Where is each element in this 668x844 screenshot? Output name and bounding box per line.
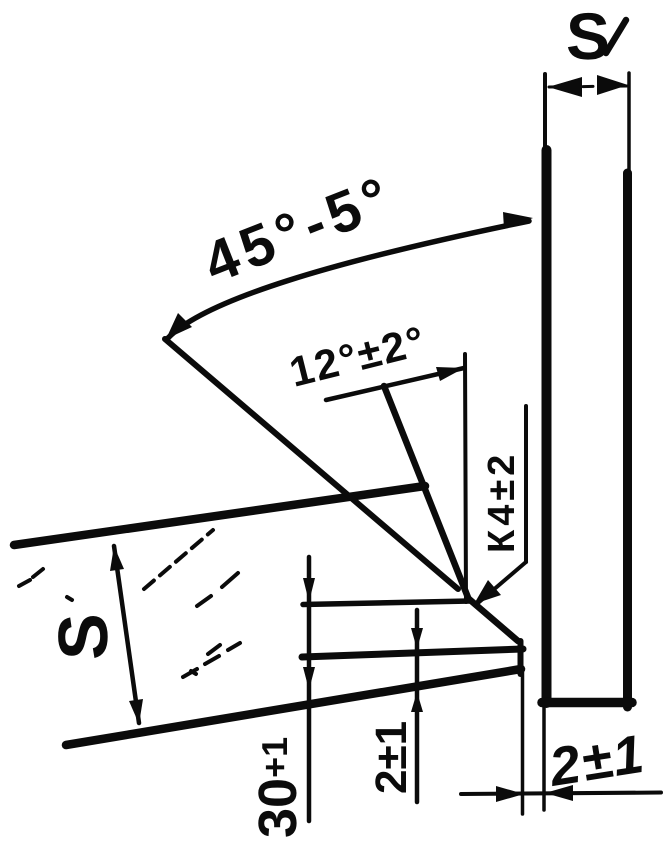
- arc right arrowhead: [503, 212, 533, 229]
- K leader vertical segment: [524, 406, 528, 562]
- 30+1 dimension line: [307, 557, 312, 821]
- root gap left-pointing arrowhead: [545, 785, 573, 801]
- S1 dimension line: [549, 86, 627, 87]
- 45 deg construction line: [165, 339, 458, 589]
- hatch dashed line 2: [144, 530, 213, 589]
- arc left arrowhead: [166, 313, 192, 339]
- svg-text:S: S: [44, 613, 122, 660]
- svg-text:2±1: 2±1: [367, 721, 416, 794]
- speck dot 1: [67, 597, 72, 600]
- S dimension bottom arrowhead: [129, 699, 143, 724]
- root gap right-pointing arrowhead: [496, 786, 524, 802]
- hatch dashed line 4: [197, 573, 238, 606]
- nose chamfer: [469, 599, 518, 641]
- right plate left edge extension below: [542, 707, 546, 810]
- right plate left edge thin top: [543, 74, 547, 154]
- 30+1 top arrowhead: [303, 578, 315, 602]
- label S1 subscript stroke: [606, 20, 626, 53]
- S1 right arrowhead: [597, 75, 628, 95]
- speck dot 2: [191, 671, 196, 674]
- K leader diagonal segment: [478, 562, 526, 603]
- right plate left edge thick: [542, 150, 552, 703]
- svg-text:К4±2: К4±2: [481, 451, 523, 553]
- left plate bottom surface edge: [66, 669, 521, 745]
- nose top line: [303, 601, 470, 605]
- 12 deg dimension line: [326, 368, 464, 400]
- 2+-1 left top arrowhead: [411, 628, 423, 649]
- hatch dashed line 3: [183, 643, 240, 677]
- right plate right edge thin top: [627, 73, 631, 175]
- nose right edge extension line: [521, 672, 525, 814]
- 45 deg dimension arc: [168, 221, 529, 338]
- right plate bottom edge: [542, 698, 632, 708]
- nose right edge solid: [518, 641, 524, 674]
- 2+-1 left bottom arrowhead: [411, 692, 423, 712]
- 2+-1 left dimension line: [415, 610, 420, 802]
- K leader arrowhead: [474, 580, 501, 604]
- 12 deg dimension arrowhead: [436, 367, 464, 381]
- svg-text:S: S: [566, 0, 610, 73]
- right plate right edge thick: [623, 173, 632, 707]
- bevel face 12 deg line with extension: [384, 386, 469, 600]
- S dimension line: [114, 546, 139, 723]
- S1 left arrowhead: [548, 77, 582, 97]
- left plate top surface edge: [14, 486, 425, 545]
- hatch dashed line 1: [19, 569, 43, 586]
- 30+1 bottom arrowhead: [303, 667, 315, 690]
- vertical extension line for 12 deg dimension: [465, 354, 466, 602]
- root gap dimension line: [461, 793, 661, 795]
- hatch dash short: [208, 645, 220, 654]
- S dimension top arrowhead: [110, 546, 124, 571]
- root face line: [302, 649, 523, 657]
